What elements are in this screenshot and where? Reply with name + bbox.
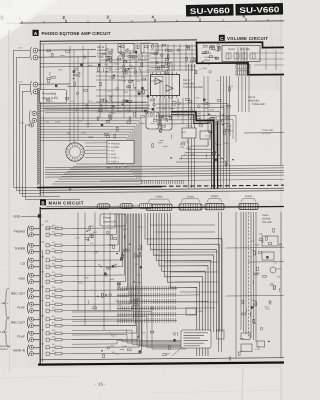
misc wires main circuit right	[150, 225, 218, 302]
PCB boundary dashed segment	[162, 185, 284, 186]
value labels: right column values	[249, 233, 281, 279]
value labels: volume box values	[199, 46, 217, 71]
connector CN504 (hatched)	[239, 195, 258, 210]
component cluster: volume box parts	[201, 44, 220, 73]
nested corner wires left of tone PCB	[216, 116, 236, 142]
recording signal jack pair	[33, 82, 38, 87]
component cluster: tone stage parts	[150, 98, 214, 122]
signal bus group to tone amp	[45, 165, 284, 167]
main circuit left border (double)	[39, 207, 41, 364]
component cluster: main row parts mid	[85, 227, 143, 309]
value labels: bottom middle values	[110, 332, 170, 356]
vertical bundle below connectors turning right	[145, 213, 222, 356]
diagonal wire lower left of tone area	[214, 150, 230, 166]
component cluster: selector area parts	[101, 120, 145, 138]
margin wire loop 1 (phono L)	[14, 50, 41, 187]
wires right of volume block	[254, 50, 284, 70]
comb array (record selector switch matrix)	[117, 286, 177, 323]
main circuit top border	[40, 207, 284, 209]
title banner plate SU-V660 (left)	[186, 4, 234, 16]
wires right column	[280, 212, 282, 358]
component cluster: left input parts section A	[46, 50, 92, 112]
component cluster: right bottom parts	[238, 300, 270, 355]
value labels: A area wire labels	[46, 120, 91, 135]
title banner plate SU-V660 (right)	[235, 3, 283, 15]
phono/tone amp board left border wire	[39, 41, 41, 197]
left border connector strip (hatched)	[38, 88, 40, 185]
filter cap can (left)	[118, 44, 134, 54]
tone amp B+ wire	[244, 132, 284, 134]
connector oval terminal at x=97	[97, 204, 110, 209]
main circuit bottom border thick	[38, 363, 284, 365]
volume connector hatched block 2	[236, 71, 250, 75]
input jacks PLAY	[17, 299, 44, 313]
op-amp triangle R inside IC1	[166, 85, 173, 91]
wires between IC area and volume boundary	[150, 44, 196, 71]
right border vertical wire	[280, 75, 282, 165]
wires down from volume connector	[239, 76, 250, 112]
component cluster: bottom middle parts	[101, 329, 178, 358]
wires above IC1	[40, 62, 150, 65]
small box pair above legend	[186, 308, 196, 315]
nested wire corners center-right	[156, 104, 228, 162]
GND terminal square	[38, 214, 41, 217]
phono input jack pair (top)	[33, 48, 38, 53]
component cluster: pre-volume coupling parts	[152, 44, 198, 74]
connector CN503 (hatched)	[205, 195, 224, 210]
connector CN502 (hatched)	[179, 195, 202, 210]
phono signal label box	[100, 214, 126, 226]
value labels: phono EQ values mid	[100, 72, 142, 114]
component cluster: center nested area parts	[181, 125, 216, 160]
left border inner line	[43, 44, 45, 196]
muting transistor block 1	[146, 112, 159, 129]
input selector rotary switch S401	[66, 143, 84, 161]
phono/tone amp board second top wire	[40, 42, 150, 45]
bottom right cluster boxes	[241, 333, 250, 340]
connector CN501 (hatched)	[146, 196, 172, 211]
value labels: right bottom values	[240, 299, 270, 353]
connector oval terminal at x=139	[139, 204, 152, 209]
wire phono R to EQ amp	[38, 56, 96, 58]
section A bottom boundary thick	[37, 187, 162, 188]
component cluster: phono EQ parts mid	[99, 75, 149, 119]
staircase wires bottom-left block	[72, 312, 207, 349]
row wires staircase up to connector row	[72, 214, 141, 354]
long vertical wires crossing input rows	[78, 213, 110, 331]
nested routing rings around selector	[41, 118, 142, 184]
main circuit bottom border thin	[40, 358, 284, 360]
ruler ticks and numbers	[2, 14, 268, 24]
op-amp IC1 AN6554 phono EQ (DIP box)	[151, 75, 180, 96]
vertical bus right of tone PCB	[220, 76, 222, 188]
component cluster: tone pcb left parts	[214, 88, 234, 161]
margin wire loop 3 (rec L)	[20, 84, 41, 193]
right column component cluster upper	[262, 236, 278, 246]
tone amp PCB boundary staircase	[171, 112, 214, 189]
input list box (selector positions)	[107, 141, 134, 164]
volume control block	[222, 46, 260, 62]
section label C VOLUME CIRCUIT	[219, 35, 269, 41]
value labels: center nested values	[180, 125, 215, 156]
value labels: left column CN labels	[45, 220, 59, 230]
wire recording jacks right	[38, 83, 70, 85]
wires inside volume box	[237, 47, 239, 64]
tone network box 1	[182, 128, 196, 138]
vertical wire bus left of EQ	[69, 46, 71, 160]
volume connector hatched block 1	[236, 65, 250, 70]
value labels: tone pcb left values	[214, 79, 233, 145]
svg-text:- 15 -: - 15 -	[95, 382, 107, 387]
section divider double line	[40, 188, 284, 190]
value labels: main row values	[75, 225, 141, 307]
input jacks REC OUT	[11, 285, 44, 299]
label box Recording signal (L/R)	[40, 90, 67, 104]
connector oval terminal at x=120	[120, 204, 133, 209]
value labels: phono EQ values upper	[101, 47, 150, 73]
margin wire loop 5	[26, 125, 81, 200]
nested feedback routing left of tone stage	[150, 63, 172, 118]
input jacks PLAY	[17, 328, 44, 342]
vertical wires into tone network	[188, 64, 190, 188]
input jacks GND	[13, 215, 40, 219]
TAPE 2 brace	[4, 317, 10, 347]
section label A PHONO EQ/TONE AMP CIRCUIT	[33, 30, 111, 36]
section label B MAIN CIRCUIT	[40, 199, 84, 205]
vertical wires near legend	[218, 212, 220, 352]
legend note box	[181, 330, 211, 348]
input jacks TUNER	[14, 240, 44, 254]
component cluster: right column parts	[253, 229, 282, 293]
input jacks CD	[21, 255, 45, 269]
phono/tone amp board top border wire	[40, 40, 197, 41]
TAPE 1 brace	[4, 288, 10, 319]
input row RC components	[46, 224, 72, 355]
bus at section A bottom-left	[40, 102, 148, 105]
input jacks MAIN IN	[13, 342, 44, 356]
op-amp triangle L inside IC1	[155, 78, 162, 84]
misc horizontal wires section A	[44, 56, 150, 112]
component cluster: phono EQ parts upper	[98, 45, 149, 75]
ground symbols	[68, 116, 272, 360]
volume pot elements	[226, 53, 231, 59]
input jacks REC OUT	[11, 314, 44, 328]
filter cap can (right)	[141, 44, 158, 54]
muting transistor block 2	[161, 116, 172, 130]
margin jack at y125	[30, 123, 34, 127]
hatch comb above divider (wire ends)	[141, 180, 143, 184]
misc vertical wires section A	[100, 44, 208, 126]
value labels: tone stage values	[162, 96, 208, 115]
main/volume PCB divider vertical	[217, 121, 219, 189]
jack pair third (tape monitor)	[29, 111, 36, 124]
tone network box 2	[200, 131, 210, 139]
transistor Q right column	[270, 267, 276, 273]
ruler scale line	[6, 21, 284, 23]
input jacks PHONO	[14, 223, 44, 237]
margin wire loop 2 (phono R)	[17, 57, 41, 190]
tone amp PCB boundary parallel line	[171, 114, 212, 189]
input jacks AUX	[19, 270, 44, 284]
wire stubs from selector to list box	[85, 142, 107, 144]
comb output wires to right	[177, 295, 215, 315]
component cluster: below IC1 parts	[151, 122, 173, 158]
margin wire loop 4 (rec R)	[23, 91, 61, 196]
bus stub lines upper	[45, 104, 150, 107]
volume PCB boundary (thick) top	[197, 42, 285, 47]
main circuit top border thin	[46, 205, 140, 208]
wires down from CN504	[241, 212, 256, 342]
wire phono L to EQ amp	[38, 49, 96, 51]
volume PCB boundary (thick) left/lower	[197, 42, 285, 75]
